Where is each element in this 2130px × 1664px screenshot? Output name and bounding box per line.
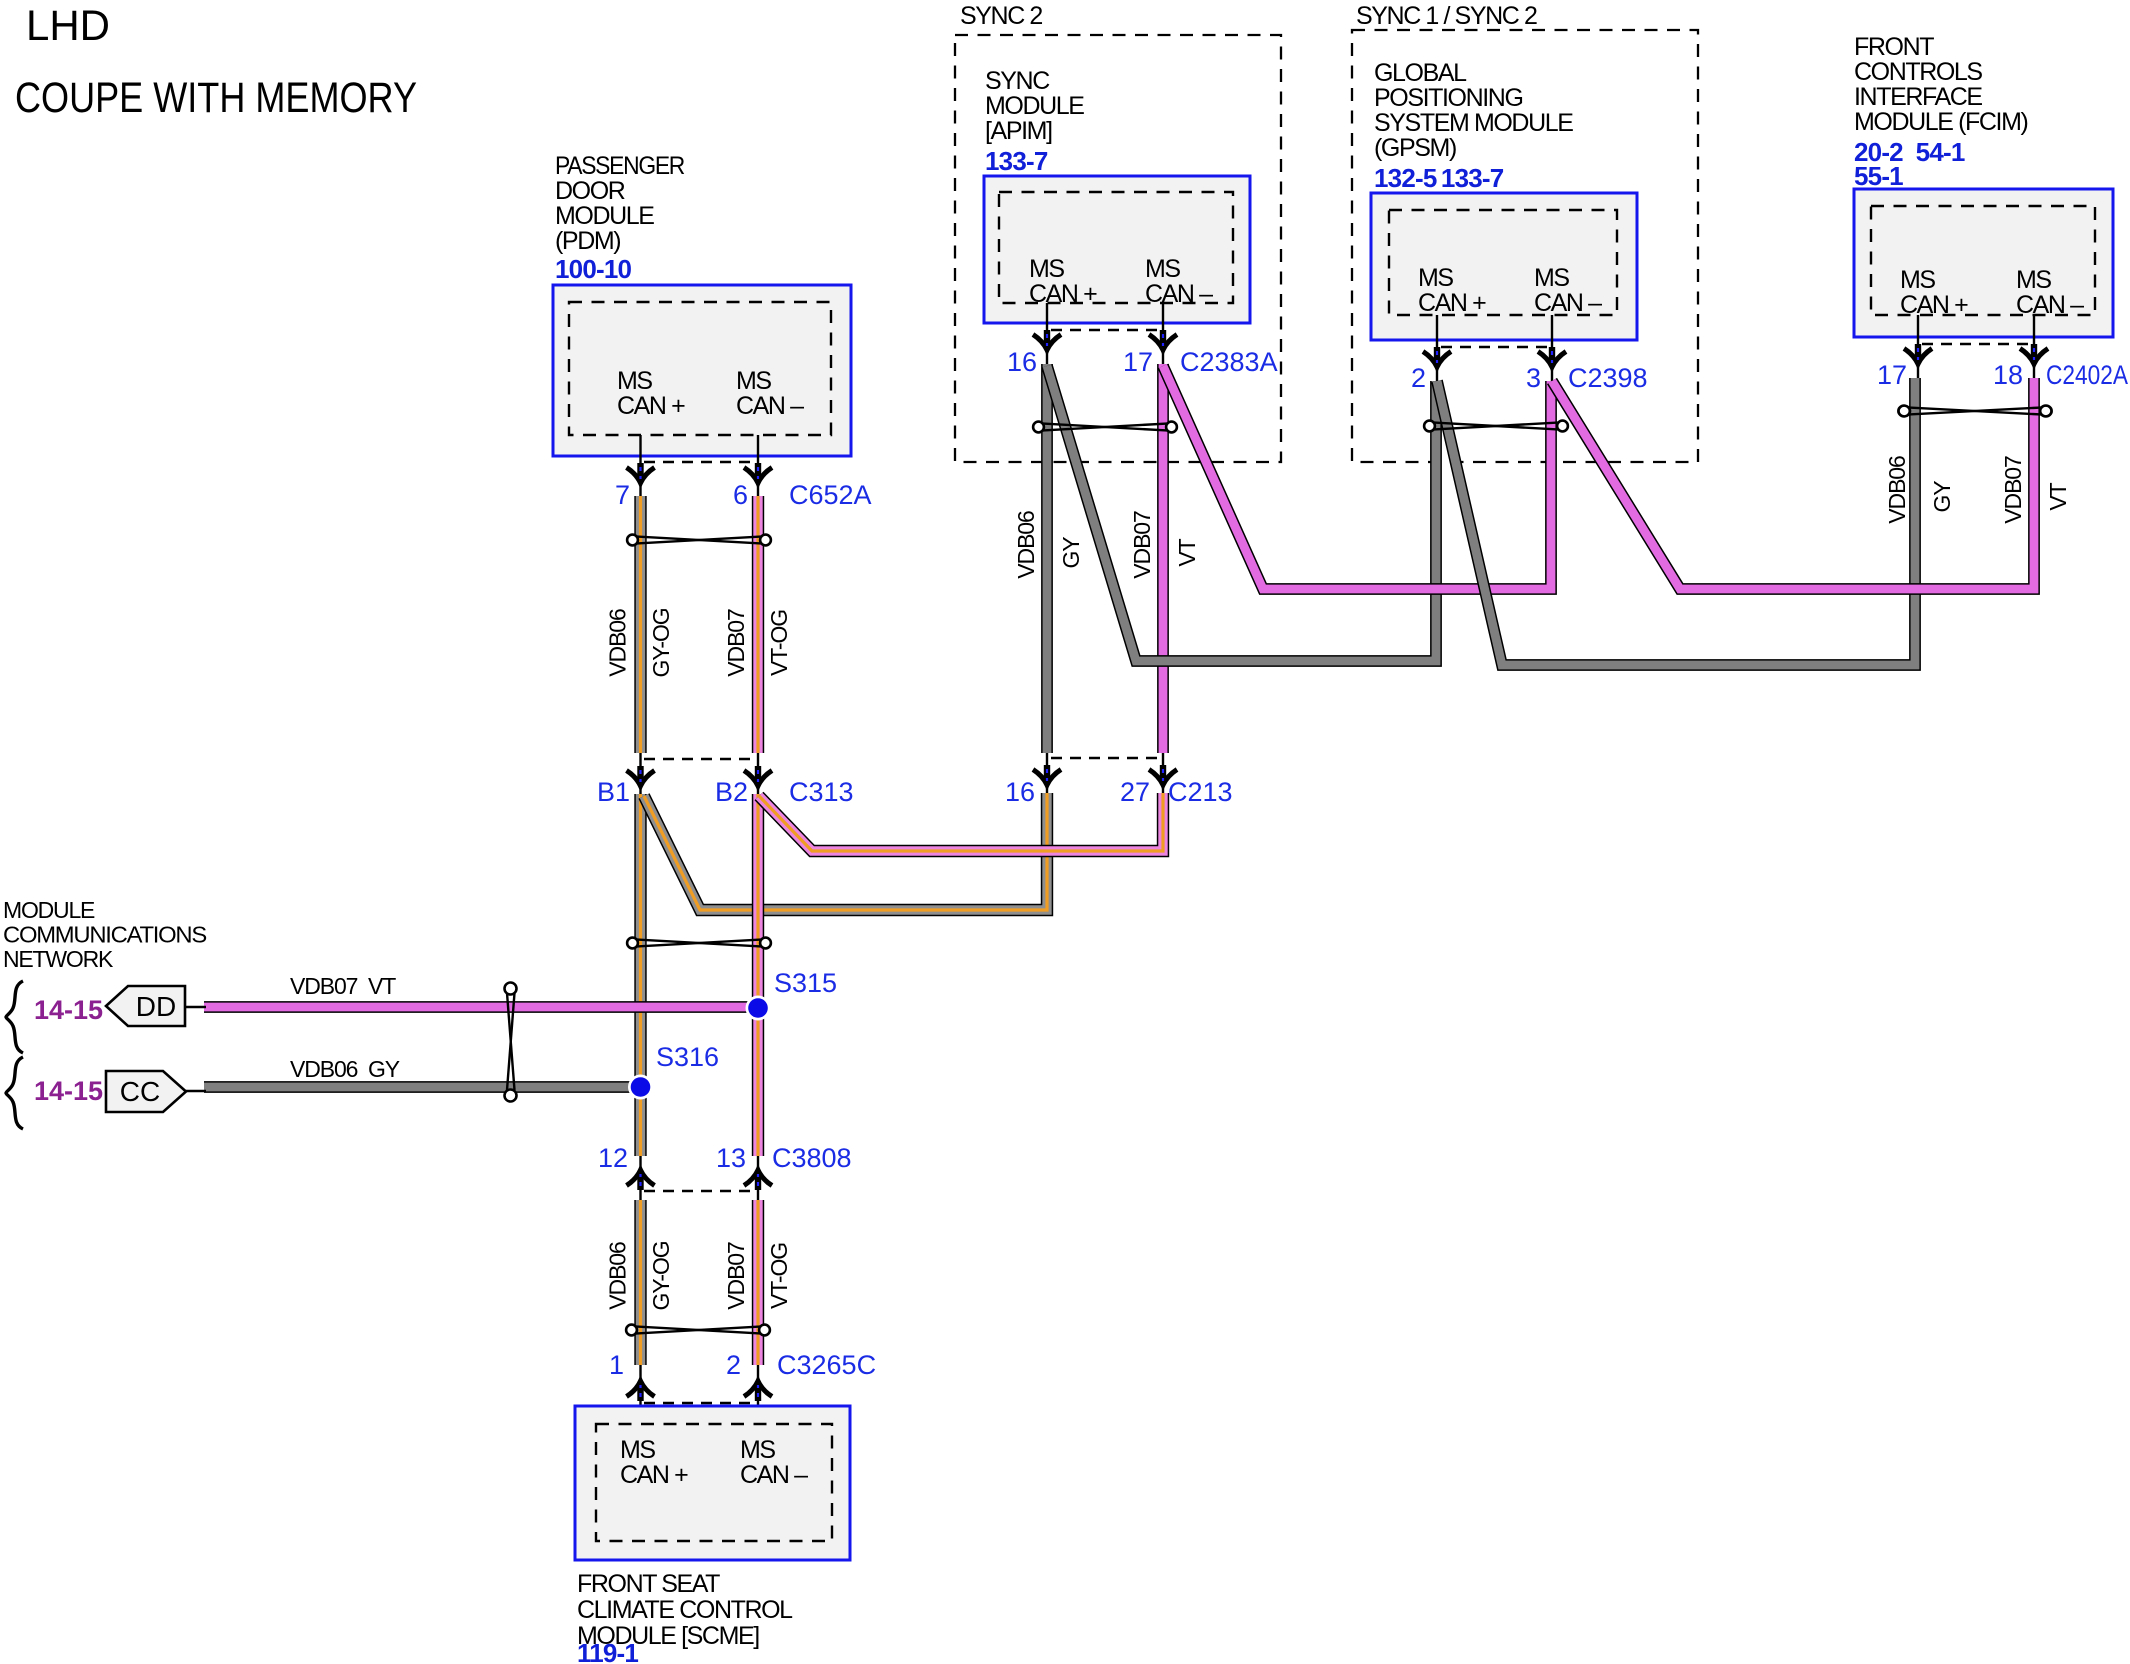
wire VDB07 VT-OG: C3808 pin13 to C3265C pin2 — [752, 1200, 764, 1365]
arrow C313 B1 — [627, 766, 655, 786]
arrow C652A pin6 — [744, 463, 772, 483]
svg-text:CAN +: CAN + — [617, 392, 685, 420]
svg-text:2: 2 — [1411, 363, 1426, 393]
DD tag lead — [185, 1006, 206, 1009]
vertical twist on DD/CC wires — [505, 983, 517, 1102]
svg-text:MS: MS — [617, 367, 652, 395]
C213 thin line pin16 — [1046, 753, 1048, 793]
svg-text:132-5 133-7: 132-5 133-7 — [1374, 163, 1504, 193]
svg-text:VDB07: VDB07 — [723, 1242, 749, 1310]
twisted pair below C2398 — [1424, 421, 1568, 432]
svg-text:VDB06: VDB06 — [605, 1242, 631, 1310]
connector C313 bracket — [644, 758, 758, 761]
svg-text:CAN –: CAN – — [1534, 289, 1602, 317]
arrow C213 pin16 — [1033, 765, 1061, 785]
wire VDB07 VT: SYNC pin17 to GPSM pin3 (diag+horiz) — [1163, 366, 1551, 589]
arrow C2398 pin2 — [1423, 347, 1451, 367]
arrow C3265C pin2 — [744, 1381, 772, 1401]
svg-text:VDB07 VT: VDB07 VT — [290, 973, 396, 999]
svg-text:COMMUNICATIONS: COMMUNICATIONS — [3, 922, 207, 948]
svg-text:MS: MS — [1534, 264, 1569, 292]
module box SYNC APIM — [984, 176, 1250, 323]
svg-text:GY: GY — [1058, 537, 1084, 569]
wire VDB07 VT: SYNC pin17 down to C213 pin27 — [1157, 364, 1169, 753]
svg-text:LHD: LHD — [26, 2, 110, 50]
connector C213 bracket — [1051, 757, 1163, 760]
twisted pair below C2402A — [1898, 406, 2051, 417]
svg-text:C2383A: C2383A — [1180, 347, 1278, 377]
svg-text:POSITIONING: POSITIONING — [1374, 84, 1523, 112]
svg-text:VDB06: VDB06 — [1884, 456, 1910, 524]
splice S315 — [746, 996, 771, 1021]
svg-text:SYSTEM MODULE: SYSTEM MODULE — [1374, 109, 1573, 137]
CC tag lead — [186, 1090, 206, 1093]
svg-text:17: 17 — [1123, 347, 1153, 377]
svg-text:CAN +: CAN + — [1900, 291, 1968, 319]
svg-text:FRONT SEAT: FRONT SEAT — [577, 1570, 720, 1598]
svg-text:55-1: 55-1 — [1854, 161, 1903, 191]
svg-text:VT: VT — [2045, 482, 2071, 510]
GPSM pin stub 2 — [1436, 315, 1438, 381]
arrow C652A pin7 — [627, 463, 655, 483]
wire VDB06 GY: GPSM pin2 to FCIM pin17 (diag+horiz) — [1437, 378, 1915, 665]
svg-text:VDB06: VDB06 — [605, 609, 631, 677]
svg-text:12: 12 — [598, 1143, 628, 1173]
module box PDM — [553, 285, 851, 456]
svg-text:MODULE (FCIM): MODULE (FCIM) — [1854, 108, 2028, 136]
wire VDB07 VT: GPSM pin3 to FCIM pin18 (diag+horiz) — [1552, 378, 2034, 589]
arrow C213 pin27 — [1149, 765, 1177, 785]
splice S316 — [628, 1075, 653, 1100]
module box GPSM — [1371, 193, 1637, 340]
C3808 thin line 13 — [757, 1156, 759, 1200]
wire VDB06 GY: module communications CC to S316 — [204, 1081, 641, 1093]
GPSM pin stub 3 — [1551, 315, 1553, 381]
svg-text:MODULE: MODULE — [985, 92, 1084, 120]
twisted pair above S315 — [627, 938, 771, 949]
svg-text:27: 27 — [1120, 777, 1150, 807]
svg-text:NETWORK: NETWORK — [3, 946, 114, 972]
svg-text:C2398: C2398 — [1568, 363, 1648, 393]
svg-text:MODULE: MODULE — [3, 897, 95, 923]
connector C652A bracket — [644, 461, 758, 464]
svg-text:MODULE: MODULE — [555, 202, 654, 230]
wire VDB07 VT-OG: PDM pin6 down to C3808 pin13 — [752, 496, 764, 753]
wire VDB06 GY-OG: PDM pin7 down to C3808 pin12 — [634, 496, 646, 753]
wire VDB07 VT-OG: C313 B2 branch to C213 pin27 — [759, 793, 1163, 851]
arrow C313 B2 — [744, 766, 772, 786]
svg-text:FRONT: FRONT — [1854, 33, 1934, 61]
svg-text:100-10: 100-10 — [555, 254, 631, 284]
svg-text:VDB06 GY: VDB06 GY — [290, 1056, 400, 1082]
svg-text:GY-OG: GY-OG — [648, 1241, 674, 1310]
svg-text:7: 7 — [615, 480, 630, 510]
wire VDB06 GY: SYNC pin16 to GPSM pin2 (diag+horiz) — [1047, 366, 1436, 661]
arrow C3808 pin13 — [744, 1170, 772, 1190]
svg-text:SYNC 1 / SYNC 2: SYNC 1 / SYNC 2 — [1356, 2, 1537, 30]
svg-text:CAN +: CAN + — [1418, 289, 1486, 317]
svg-text:GLOBAL: GLOBAL — [1374, 59, 1467, 87]
svg-text:MS: MS — [1900, 266, 1935, 294]
svg-text:VT-OG: VT-OG — [766, 610, 792, 676]
svg-text:C652A: C652A — [789, 480, 872, 510]
svg-text:MS: MS — [740, 1436, 775, 1464]
svg-text:(GPSM): (GPSM) — [1374, 134, 1456, 162]
module box FCIM — [1854, 189, 2113, 337]
svg-text:18: 18 — [1993, 360, 2023, 390]
svg-text:13: 13 — [716, 1143, 746, 1173]
PDM pin stub 6 — [757, 435, 759, 496]
svg-text:VDB07: VDB07 — [723, 609, 749, 677]
svg-text:PASSENGER: PASSENGER — [555, 152, 684, 180]
C3808 thin line 12 — [639, 1156, 641, 1200]
svg-text:C3808: C3808 — [772, 1143, 852, 1173]
twisted pair below C3808 — [626, 1325, 770, 1336]
connector C2398 bracket — [1441, 346, 1552, 349]
svg-text:MS: MS — [1145, 255, 1180, 283]
svg-text:MS: MS — [736, 367, 771, 395]
svg-text:16: 16 — [1005, 777, 1035, 807]
connector C3808 bracket — [644, 1190, 758, 1193]
svg-text:(PDM): (PDM) — [555, 227, 620, 255]
svg-text:INTERFACE: INTERFACE — [1854, 83, 1982, 111]
svg-text:CC: CC — [120, 1076, 160, 1107]
arrow C3265C pin1 — [627, 1381, 655, 1401]
arrow C2398 pin3 — [1538, 347, 1566, 367]
svg-text:CAN –: CAN – — [1145, 280, 1213, 308]
svg-text:1: 1 — [609, 1350, 624, 1380]
wire VDB06 GY-OG: C313 B1 branch to C213 pin16 — [644, 793, 1047, 910]
svg-text:CLIMATE CONTROL: CLIMATE CONTROL — [577, 1596, 793, 1624]
svg-text:C2402A: C2402A — [2046, 360, 2128, 390]
svg-text:GY: GY — [1929, 481, 1955, 513]
FCIM pin stub 18 — [2033, 315, 2035, 378]
C3265C thin line 1 — [639, 1365, 641, 1424]
svg-text:CAN –: CAN – — [740, 1461, 808, 1489]
svg-text:CAN –: CAN – — [2016, 291, 2084, 319]
twisted pair below C2383A — [1033, 422, 1177, 433]
svg-text:B2: B2 — [715, 777, 748, 807]
connector C3265C bracket — [644, 1402, 758, 1405]
svg-text:SYNC 2: SYNC 2 — [960, 2, 1042, 30]
DD tag — [106, 986, 185, 1026]
wire VDB07 VT: module communications DD to S315 — [204, 1001, 758, 1013]
svg-text:MS: MS — [2016, 266, 2051, 294]
C213 thin line pin27 — [1162, 753, 1164, 793]
wire VDB06 GY: SYNC pin16 down to C213 pin16 — [1041, 364, 1053, 753]
svg-text:C3265C: C3265C — [777, 1350, 876, 1380]
svg-text:133-7: 133-7 — [985, 146, 1048, 176]
svg-text:S316: S316 — [656, 1042, 719, 1072]
arrow C2383A pin17 — [1149, 330, 1177, 350]
wire VDB06 GY-OG: C3808 pin12 to C3265C pin1 — [634, 1200, 646, 1365]
svg-text:MS: MS — [1418, 264, 1453, 292]
twisted pair below C652A — [627, 535, 771, 546]
brace CC — [6, 1057, 23, 1129]
svg-text:VDB07: VDB07 — [1129, 511, 1155, 579]
arrow C2402A pin18 — [2020, 344, 2048, 364]
svg-text:MS: MS — [620, 1436, 655, 1464]
SYNC 2 dashed system box — [955, 35, 1281, 462]
arrow C3808 pin12 — [627, 1170, 655, 1190]
SYNC1/SYNC2 dashed system box — [1352, 30, 1698, 462]
svg-text:COUPE WITH MEMORY: COUPE WITH MEMORY — [15, 74, 417, 122]
svg-text:CAN +: CAN + — [1029, 280, 1097, 308]
svg-text:CAN +: CAN + — [620, 1461, 688, 1489]
connector C2402A bracket — [1922, 343, 2034, 346]
svg-text:6: 6 — [733, 480, 748, 510]
svg-text:DOOR: DOOR — [555, 177, 625, 205]
C3265C thin line 2 — [757, 1365, 759, 1424]
svg-text:119-1: 119-1 — [577, 1638, 638, 1664]
PDM module label — [555, 152, 684, 284]
arrow C2383A pin16 — [1033, 330, 1061, 350]
PDM pin stub 7 — [639, 435, 641, 496]
svg-text:3: 3 — [1526, 363, 1541, 393]
connector C2383A bracket — [1051, 329, 1163, 332]
svg-text:MS: MS — [1029, 255, 1064, 283]
FCIM pin stub 17 — [1917, 315, 1919, 378]
svg-text:C213: C213 — [1168, 777, 1233, 807]
CC tag — [106, 1071, 186, 1112]
svg-text:DD: DD — [136, 991, 176, 1022]
svg-text:2: 2 — [726, 1350, 741, 1380]
svg-text:14-15: 14-15 — [34, 995, 103, 1025]
svg-text:17: 17 — [1877, 360, 1907, 390]
svg-text:VDB07: VDB07 — [2000, 456, 2026, 524]
C313 thin line B2 — [757, 753, 759, 794]
svg-text:SYNC: SYNC — [985, 67, 1050, 95]
arrow C2402A pin17 — [1904, 344, 1932, 364]
svg-text:CAN –: CAN – — [736, 392, 804, 420]
svg-text:VT: VT — [1174, 538, 1200, 566]
svg-text:S315: S315 — [774, 968, 837, 998]
SYNC pin stub 16 — [1046, 303, 1048, 364]
svg-text:C313: C313 — [789, 777, 854, 807]
svg-text:14-15: 14-15 — [34, 1076, 103, 1106]
C313 thin line B1 — [639, 753, 641, 794]
brace DD — [6, 981, 23, 1053]
module box SCME — [575, 1406, 850, 1560]
svg-text:[APIM]: [APIM] — [985, 117, 1052, 145]
svg-text:B1: B1 — [597, 777, 630, 807]
svg-text:16: 16 — [1007, 347, 1037, 377]
svg-text:VDB06: VDB06 — [1013, 511, 1039, 579]
svg-text:CONTROLS: CONTROLS — [1854, 58, 1982, 86]
svg-text:GY-OG: GY-OG — [648, 608, 674, 677]
SYNC pin stub 17 — [1162, 303, 1164, 364]
svg-text:VT-OG: VT-OG — [766, 1243, 792, 1309]
